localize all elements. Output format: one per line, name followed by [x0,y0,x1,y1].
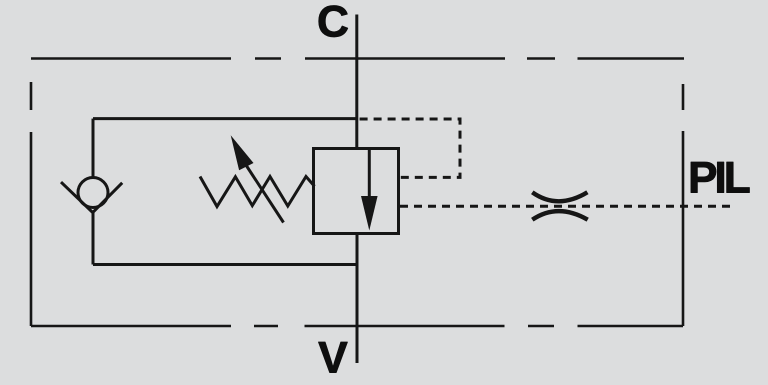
port label V [319,342,348,372]
adjustment arrow shaft [244,162,284,223]
port label C [319,6,348,37]
enclosure border bottom (phantom chain line) [31,325,683,328]
enclosure border top (phantom chain line) [31,57,684,60]
pilot line to PIL port (dashed) [400,205,730,208]
pilot orifice (restrictor) [532,192,587,219]
check valve seat [61,182,122,212]
wire below check valve [92,211,95,265]
wire C port line [355,15,358,149]
valve body U1 (relief valve square) [314,149,399,234]
valve internal flow line [368,149,371,206]
enclosure border right (phantom chain line) [682,84,685,326]
enclosure border left (phantom chain line) [30,82,33,326]
check valve (ball) [78,178,108,208]
wire bottom horizontal to V line [93,263,357,266]
wire left branch top horizontal [93,117,357,120]
spring (relief setting) [200,177,315,207]
adjustment arrow head [231,135,254,170]
pilot line from C (dashed) [360,119,460,177]
port label PIL [691,162,749,192]
wire valve to V port [356,234,359,364]
wire left branch vertical to check valve [92,119,95,178]
valve internal flow arrow head [361,196,378,231]
